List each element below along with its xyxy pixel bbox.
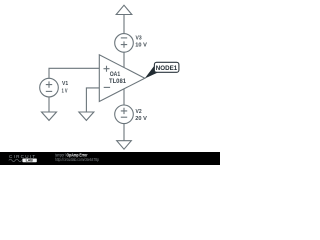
- V2 plus sign: [121, 108, 127, 114]
- svg-text:10 V: 10 V: [135, 42, 147, 48]
- op-amp minus input marker: [104, 86, 110, 88]
- V3 plus sign: [121, 41, 127, 47]
- svg-text:TL081: TL081: [109, 78, 126, 85]
- V3 minus sign: [121, 37, 127, 39]
- svg-text:http://circuitlab.com/c6e6478p: http://circuitlab.com/c6e6478p: [55, 157, 100, 162]
- wire VCC to V3: [123, 15, 125, 34]
- voltage source V2: [115, 105, 134, 124]
- V1 minus sign: [46, 90, 52, 92]
- svg-text:LAB: LAB: [26, 159, 34, 163]
- wire V1 to op-amp plus input: [49, 68, 99, 78]
- voltage source V3: [115, 34, 134, 53]
- node flag NODE1 box: [154, 62, 179, 72]
- svg-text:OA1: OA1: [110, 71, 121, 78]
- V2 minus sign: [121, 116, 127, 118]
- svg-text:20 V: 20 V: [135, 116, 147, 122]
- svg-text:NODE1: NODE1: [156, 65, 178, 72]
- footer bar: [0, 152, 220, 165]
- svg-text:V2: V2: [136, 109, 142, 115]
- wire op-amp VEE pin to V2: [123, 89, 125, 105]
- wire op-amp minus input to ground: [86, 88, 99, 112]
- wire V3 to op-amp VCC pin: [123, 52, 125, 67]
- logo sine squiggle: [9, 159, 22, 161]
- wire V1 to ground: [48, 97, 50, 112]
- wire V2 to ground: [123, 124, 125, 141]
- V1 plus sign: [46, 81, 52, 87]
- svg-text:V1: V1: [62, 81, 68, 87]
- voltage source V1: [40, 78, 59, 97]
- op-amp plus input marker: [104, 66, 110, 72]
- power flag VCC arrow: [116, 5, 132, 14]
- logo LAB box: [22, 159, 36, 163]
- svg-text:1 V: 1 V: [62, 88, 68, 94]
- node flag NODE1 pointer tail: [145, 66, 158, 78]
- svg-text:V3: V3: [136, 36, 142, 42]
- ground under minus input: [79, 112, 94, 120]
- ground under V1: [42, 112, 57, 120]
- op-amp OA1 triangle: [99, 55, 145, 102]
- ground under V2: [117, 141, 132, 150]
